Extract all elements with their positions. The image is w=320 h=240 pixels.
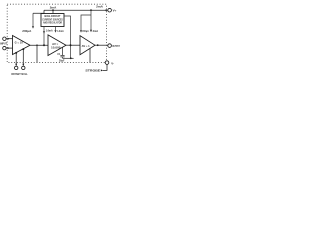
node drop to V- [36,44,38,46]
node A [43,44,45,46]
input pin IN2 [3,46,6,49]
node: rail takeoff right [90,9,92,11]
current source I2b (1.3mA feed) [55,27,57,31]
bias box U1 [41,14,64,27]
svg-text:10,000: 10,000 [51,46,61,49]
svg-text:AND REGULATOR: AND REGULATOR [43,21,62,25]
svg-text:V+: V+ [113,8,117,12]
amplifier A1 [13,36,31,55]
wire drop [36,45,38,62]
V+ rail wire [33,10,106,13]
V- pin [105,61,109,65]
svg-text:150µA: 150µA [82,30,89,33]
node A1 hyp junction 1 [15,52,17,54]
svg-text:2mA: 2mA [93,30,99,33]
offset null pin N1 [15,66,18,69]
node output [97,44,99,46]
svg-text:STROBE: STROBE [85,69,100,73]
input pin IN1 [3,37,6,40]
svg-text:1.6mA: 1.6mA [46,30,53,33]
svg-text:1.3mA: 1.3mA [57,30,64,33]
V+ pin [106,9,108,11]
wire null 2 [22,49,24,65]
node A1 hyp junction 2 [22,48,24,50]
svg-text:INPUT: INPUT [0,42,7,46]
wire: box right stub down to node B [64,16,71,58]
svg-text:G ≈ 10: G ≈ 10 [15,41,24,44]
svg-text:30pF: 30pF [59,60,65,62]
wire A2 to A3 [66,44,80,46]
current source I4 (2mA feed) [81,10,91,30]
svg-text:200µA: 200µA [22,30,31,33]
node B [70,44,72,46]
amplifier A2 [48,35,66,56]
offset null pin N2 [22,66,25,69]
wire strobe [103,65,107,71]
output pin [108,44,112,48]
wire A3 emitter to V- rail [89,48,91,62]
wire output [95,44,108,46]
svg-text:2mA: 2mA [96,4,103,8]
wire A1 to A2 [30,44,48,46]
svg-text:2mA: 2mA [50,6,57,10]
svg-text:V-: V- [111,62,114,66]
current source I1 (200uA feed) [32,13,34,26]
svg-text:OFFSET NULL: OFFSET NULL [11,72,28,76]
node: rail to bias box [52,9,54,11]
wire cap bottom [63,57,74,59]
node B2 [70,57,72,59]
current source I2a (1.6mA feed to node A) [43,27,45,46]
wire null 1 [15,53,17,65]
capacitor C1 [62,47,64,55]
IC dashed border [7,4,106,62]
amplifier A3 [80,36,95,55]
current source I3 (150uA feed) [80,30,82,32]
svg-text:AV ≈ 1: AV ≈ 1 [82,45,91,48]
svg-text:OUTPUT: OUTPUT [112,45,120,48]
